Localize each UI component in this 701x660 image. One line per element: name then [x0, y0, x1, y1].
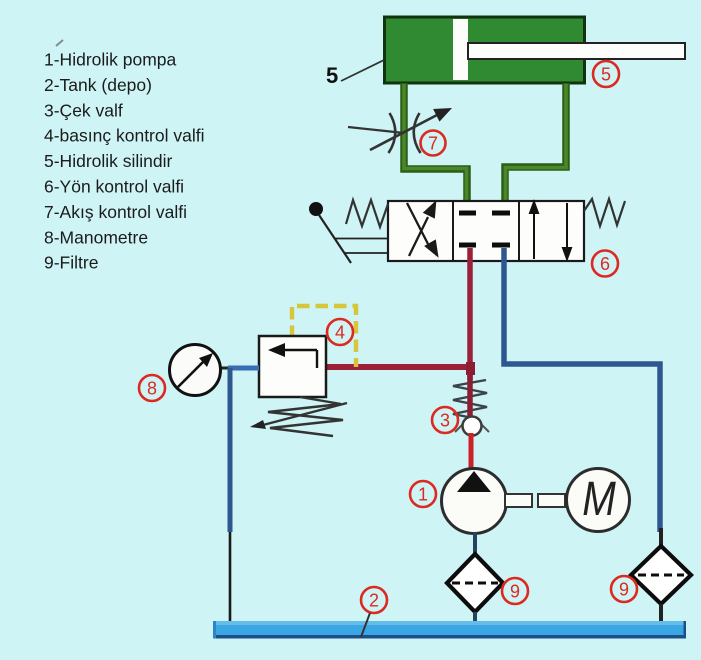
svg-text:3-Çek valf: 3-Çek valf — [44, 100, 123, 120]
wire: relief branch horizontal (crimson) — [326, 364, 473, 370]
wire: pump outlet (bright red) — [469, 433, 474, 476]
label circle 3 — [432, 407, 458, 433]
shaft coupling pump-motor — [505, 494, 565, 507]
wire: cylinder left port to throttle and valve port A (green) — [404, 83, 467, 211]
svg-text:6-Yön kontrol valfi: 6-Yön kontrol valfi — [44, 177, 184, 197]
valve left spring — [346, 200, 388, 227]
valve right spring — [584, 199, 625, 226]
label circle 6 — [592, 251, 618, 277]
check valve ball — [463, 417, 482, 436]
valve right cell straight arrows — [530, 202, 571, 259]
directional control valve U6 body — [388, 201, 584, 261]
label circle 9 (left) — [502, 578, 528, 604]
junction blob — [466, 362, 475, 375]
wire: cylinder right port to valve port B (green) — [505, 83, 566, 211]
svg-text:4-basınç kontrol valfi: 4-basınç kontrol valfi — [44, 126, 205, 146]
wire: left filter to tank — [473, 612, 477, 636]
hydraulic pump U1 — [442, 469, 507, 534]
svg-text:9: 9 — [619, 580, 629, 600]
label 5 (bold) with pointer line — [326, 60, 384, 88]
filter U9 (right diamond) — [631, 546, 691, 604]
label circle 9 (right) — [611, 576, 637, 602]
svg-text:4: 4 — [335, 323, 345, 343]
svg-text:9-Filtre: 9-Filtre — [44, 253, 98, 273]
wire: manometer branch down (blue then black) — [228, 368, 233, 532]
wire: pressure line valve to junction (crimson) — [467, 248, 473, 380]
manometer U8 — [170, 345, 221, 396]
svg-text:M: M — [582, 473, 616, 526]
filter U9 (left diamond) — [447, 554, 503, 612]
svg-text:1-Hidrolik pompa: 1-Hidrolik pompa — [44, 50, 177, 70]
flow control valve U7 (adjustable throttle) — [348, 108, 452, 153]
pressure relief valve U4 body — [259, 336, 326, 397]
wire: right filter to tank — [659, 604, 663, 637]
svg-text:2: 2 — [369, 591, 379, 611]
check valve ball seat marks — [455, 424, 489, 432]
wire: manometer line (blue horizontal) — [228, 366, 259, 371]
check valve U3 spring — [453, 380, 487, 419]
label circle 4 — [327, 319, 353, 345]
hydraulic cylinder U5 body — [385, 17, 585, 83]
svg-text:2-Tank (depo): 2-Tank (depo) — [44, 75, 152, 95]
valve middle cell blocked port bars — [459, 213, 510, 245]
label circle 2 with pointer — [361, 587, 387, 637]
wire: crimson through check valve — [467, 367, 473, 417]
wire: return line into right filter — [659, 528, 663, 548]
wire: pump to left filter — [473, 532, 477, 556]
valve left cell crossed arrows — [407, 203, 437, 256]
valve manual lever with knob — [309, 202, 388, 263]
svg-text:8-Manometre: 8-Manometre — [44, 227, 148, 247]
wire: tank return from valve (blue) — [504, 248, 660, 532]
svg-text:6: 6 — [600, 254, 610, 274]
svg-text:7: 7 — [428, 134, 438, 154]
label circle 7 — [421, 131, 446, 156]
svg-text:5: 5 — [601, 65, 611, 85]
svg-text:3: 3 — [440, 411, 450, 431]
wire: manometer stub (black) — [219, 367, 230, 370]
svg-text:7-Akış kontrol valfi: 7-Akış kontrol valfi — [44, 202, 187, 222]
relief valve spring below — [268, 397, 343, 436]
label circle 8 — [139, 375, 165, 401]
small stray tick above legend — [56, 40, 63, 46]
relief valve adjustment arrow — [250, 403, 347, 429]
svg-text:1: 1 — [418, 485, 428, 505]
legend text list — [44, 50, 205, 273]
cylinder rod — [468, 43, 685, 59]
svg-text:5-Hidrolik silindir: 5-Hidrolik silindir — [44, 151, 173, 171]
cylinder piston (white band) — [453, 19, 468, 80]
electric motor M — [567, 469, 630, 532]
label circle 1 — [410, 481, 436, 507]
label circle 5 — [593, 61, 619, 87]
svg-text:9: 9 — [510, 582, 520, 602]
svg-text:8: 8 — [147, 379, 157, 399]
pressure relief valve U4 pilot line (yellow dashed) — [292, 306, 356, 367]
svg-text:5: 5 — [326, 63, 338, 88]
tank U2 (reservoir bar) — [213, 621, 686, 639]
